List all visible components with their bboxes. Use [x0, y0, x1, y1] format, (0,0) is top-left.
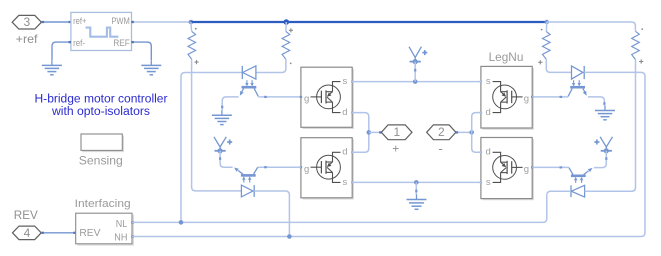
- node V+ tap: [413, 79, 418, 84]
- opto U2 LED (D1): [242, 66, 256, 87]
- svg-text:2: 2: [438, 125, 445, 139]
- svg-text:g: g: [524, 94, 529, 105]
- wire LED2 cathode to NH line: [254, 191, 289, 237]
- V+ supply symbol (right): [594, 137, 612, 154]
- svg-text:+: +: [392, 142, 399, 156]
- wire Q3 emitter to ground: [588, 97, 605, 106]
- wire M3 drain to node B: [472, 113, 481, 133]
- nub NH port: [131, 235, 134, 237]
- svg-text:s: s: [486, 177, 491, 188]
- title text: [35, 94, 168, 118]
- wire R3 to LED3 anode: [546, 59, 571, 72]
- wire port 4 to Interfacing: [41, 232, 76, 234]
- opto U3 phototransistor Q2: [233, 166, 258, 175]
- opto U5 phototransistor Q4: [569, 166, 594, 175]
- svg-text:3: 3: [23, 15, 30, 29]
- wire M4 drain to node B: [472, 132, 481, 152]
- port 1 (+): [381, 125, 412, 140]
- svg-text:NL: NL: [116, 219, 128, 230]
- wire V+ to Q2 emitter: [220, 151, 233, 167]
- wire ref- to ground: [52, 42, 71, 60]
- wire main bus (selected): [191, 21, 547, 23]
- svg-text:d: d: [486, 107, 491, 118]
- wire Q1 collector to M1 gate: [258, 96, 301, 98]
- svg-text:s: s: [343, 177, 348, 188]
- wire bus to R1: [190, 22, 193, 32]
- wire M2 drain to node A: [352, 132, 369, 152]
- node NH-LED2 junction: [287, 234, 292, 239]
- wire REF to ground: [131, 42, 151, 60]
- svg-text:NH: NH: [114, 232, 127, 243]
- wire LED1 cathode to NL line: [181, 73, 242, 223]
- V+ supply symbol (top): [409, 47, 427, 64]
- svg-text:d: d: [342, 107, 347, 118]
- nub NL port: [131, 221, 134, 223]
- wire ground stem: [415, 182, 417, 194]
- svg-text:g: g: [304, 164, 309, 175]
- svg-text:Interfacing: Interfacing: [75, 198, 131, 210]
- wire NL line: [132, 191, 571, 222]
- wire M1 drain to node A: [352, 113, 369, 133]
- svg-text:Sensing: Sensing: [79, 153, 123, 167]
- wire NH line: [132, 72, 645, 236]
- port 2 (-): [427, 125, 456, 140]
- svg-text:d: d: [342, 147, 347, 158]
- node B (right midpoint): [469, 130, 474, 135]
- wire V+ symbol stem: [414, 62, 416, 82]
- wire LED1 anode to R2: [256, 59, 286, 72]
- ground (REF): [141, 60, 161, 74]
- svg-text:ref-: ref-: [73, 38, 85, 48]
- ground (center): [407, 195, 427, 210]
- opto U4 phototransistor Q3: [568, 87, 588, 97]
- MOSFET block M4: [480, 138, 534, 200]
- wire bus to R2: [285, 22, 287, 32]
- label + (port 1): [392, 142, 399, 156]
- wire bus to R3: [545, 22, 548, 32]
- ground (opto U4): [595, 106, 615, 120]
- V+ supply symbol (left): [214, 137, 232, 154]
- svg-text:PWM: PWM: [111, 16, 129, 26]
- Interfacing block: [76, 213, 134, 245]
- MOSFET block M1: [300, 67, 354, 128]
- opto U5 LED (D4): [571, 177, 585, 197]
- resistor R2: [282, 28, 293, 64]
- label REV (port 4): [14, 210, 38, 222]
- wire V+ to Q4 emitter: [594, 151, 606, 168]
- svg-text:4: 4: [24, 226, 31, 240]
- resistor R3: [538, 29, 550, 65]
- ground (ref-): [42, 60, 62, 74]
- svg-text:s: s: [343, 76, 348, 87]
- opto U2 phototransistor Q1: [238, 87, 258, 97]
- wire node A to port 1: [369, 131, 382, 133]
- svg-text:with opto-isolators: with opto-isolators: [51, 106, 150, 118]
- resistor R1: [188, 28, 199, 64]
- Sensing block: [79, 134, 124, 167]
- node ground tap: [414, 180, 419, 185]
- label - (port 2): [438, 141, 442, 156]
- port 4 (REV input): [13, 226, 42, 240]
- svg-text:H-bridge motor controller: H-bridge motor controller: [35, 94, 168, 106]
- opto U3 LED (D2): [241, 176, 254, 197]
- wire port3 to PWM ref+: [41, 21, 71, 23]
- svg-text:ref+: ref+: [73, 16, 86, 26]
- PWM waveform icon: [86, 28, 119, 37]
- svg-text:+ref: +ref: [16, 32, 39, 46]
- svg-text:1: 1: [393, 125, 400, 139]
- wire Q3 collector to M3 gate: [532, 96, 568, 98]
- node NL-LED1 junction: [179, 220, 184, 225]
- svg-text:-: -: [438, 141, 442, 156]
- wire Q1 emitter to ground: [222, 97, 238, 111]
- wire PWM output: [131, 21, 191, 23]
- wire Q2 collector to M2 gate: [258, 166, 301, 168]
- node A (left midpoint): [367, 130, 372, 135]
- svg-text:REV: REV: [79, 228, 100, 239]
- wire ground rail: [352, 181, 481, 183]
- svg-text:g: g: [524, 164, 529, 175]
- node bus end junction at R3: [545, 20, 549, 24]
- label +ref: [16, 32, 39, 46]
- ground (opto U2): [212, 110, 232, 124]
- node PWM-bus junction: [189, 20, 194, 25]
- PWM generator block U1: [71, 12, 132, 50]
- wire R4 to LED4 anode: [585, 60, 636, 192]
- MOSFET block M3 (LegNu): [480, 66, 534, 129]
- resistor R4: [632, 28, 644, 63]
- svg-text:REF: REF: [113, 38, 130, 48]
- wire port 2 to node B: [456, 131, 472, 133]
- wire Q4 collector to M4 gate: [532, 166, 569, 168]
- svg-text:LegNu: LegNu: [489, 50, 524, 64]
- port 3 (+ref input): [12, 15, 41, 29]
- wire bus to R4: [547, 22, 636, 31]
- wire R1 to LED2 anode: [192, 59, 242, 191]
- svg-text:d: d: [486, 147, 491, 158]
- opto U4 LED (D3): [572, 66, 585, 87]
- svg-text:g: g: [304, 94, 309, 105]
- wire V+ rail: [352, 81, 481, 83]
- svg-text:REV: REV: [14, 210, 38, 222]
- label Interfacing: [75, 198, 131, 210]
- MOSFET block M2: [300, 138, 354, 199]
- svg-text:s: s: [486, 76, 491, 87]
- LegNu label: [489, 50, 524, 64]
- node bus junction at R2: [284, 19, 290, 25]
